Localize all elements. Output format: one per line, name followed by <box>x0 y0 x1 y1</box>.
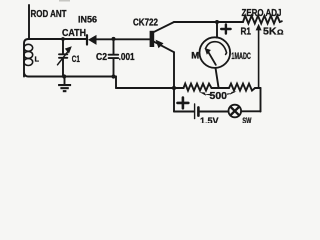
label 500 right arrow <box>230 91 237 94</box>
junction node: C2 top <box>112 37 116 41</box>
label 500 left arrow <box>200 92 207 96</box>
ground stub <box>64 77 66 85</box>
junction node: C1 top <box>61 37 65 41</box>
capacitor C1 arrow head <box>65 46 72 53</box>
potentiometer 500 right zigzag <box>229 84 255 91</box>
battery B1 long plate <box>194 104 196 119</box>
svg-text:CK722: CK722 <box>133 17 158 28</box>
meter M scale arc <box>206 42 227 55</box>
wire: bottom rail left section <box>29 76 117 78</box>
inductor L loop 1 <box>24 44 33 51</box>
svg-text:C2: C2 <box>96 52 107 63</box>
wire: emitter down to battery <box>173 52 175 111</box>
svg-text:.001: .001 <box>119 52 135 63</box>
svg-text:SW: SW <box>242 116 251 123</box>
meter M needle <box>208 52 216 65</box>
svg-text:5K: 5K <box>263 26 277 37</box>
battery B1 short plate <box>197 107 200 115</box>
switch SW body <box>229 105 242 118</box>
plus sign at meter <box>221 24 230 33</box>
ground symbol bars <box>58 84 71 86</box>
transistor Q1 base bar <box>150 31 155 47</box>
svg-text:Ω: Ω <box>277 28 284 37</box>
scan artifact top edge <box>59 0 70 2</box>
capacitor C2 bottom lead <box>113 59 115 77</box>
rod antenna lead <box>28 5 30 39</box>
svg-text:R1: R1 <box>241 26 252 37</box>
svg-text:CATH: CATH <box>62 28 86 39</box>
junction node: C2 bottom <box>111 74 115 78</box>
wire: right riser corner to pot <box>260 88 262 112</box>
transistor Q1 collector lead <box>154 22 174 32</box>
svg-text:IN56: IN56 <box>78 14 97 24</box>
switch SW cross stroke 2 <box>231 107 240 115</box>
transistor Q1 emitter arrow head <box>156 40 164 49</box>
meter M bottom lead / 500 wiper tap <box>216 68 219 88</box>
capacitor C1 top lead <box>62 39 64 54</box>
switch SW cross stroke 1 <box>231 107 240 115</box>
wire: 500 pot right end <box>255 87 261 89</box>
inductor L loop 3 <box>24 59 33 66</box>
wire: switch to right corner <box>241 110 260 112</box>
meter M needle arrow head <box>205 48 211 55</box>
svg-text:1MADC: 1MADC <box>231 51 251 62</box>
wire: battery negative lead <box>174 111 194 113</box>
diode D1 triangle <box>88 35 97 45</box>
capacitor C1 plates <box>59 53 67 55</box>
capacitor C2 top lead <box>113 39 115 54</box>
wire: lower rail to 500 pot <box>116 87 184 89</box>
inductor L loop 2 <box>24 51 33 58</box>
svg-text:ROD ANT: ROD ANT <box>31 9 67 20</box>
resistor R1 zigzag <box>243 16 282 24</box>
plus sign at battery <box>178 98 189 109</box>
potentiometer 500 left zigzag <box>174 84 229 91</box>
junction node: meter top rail <box>215 20 219 24</box>
capacitor C1 bottom lead <box>62 58 64 76</box>
svg-text:L: L <box>35 54 40 63</box>
diode D1 1N56 cathode bar <box>86 35 88 44</box>
svg-text:500: 500 <box>210 91 228 102</box>
svg-text:ZERO ADJ: ZERO ADJ <box>242 8 282 19</box>
wire: collector rail to R1 <box>174 21 243 23</box>
junction node: C1/ground bottom <box>62 74 66 78</box>
svg-text:C1: C1 <box>72 54 80 64</box>
coil L left spine with corners <box>24 39 29 77</box>
capacitor C2 plates <box>109 54 119 56</box>
transistor Q1 emitter lead <box>154 42 174 52</box>
wire: diode to transistor base <box>96 38 150 40</box>
svg-text:1.5V: 1.5V <box>200 116 219 123</box>
wire: top rail tank to diode <box>29 38 88 40</box>
meter M top stub <box>216 22 218 38</box>
junction node: emitter / 500 pot <box>172 86 176 90</box>
wire: step down at C2 <box>115 77 117 89</box>
capacitor C1 variable arrow shaft <box>58 49 71 65</box>
svg-text:M: M <box>191 51 199 62</box>
potentiometer R1 wiper shaft <box>258 30 260 89</box>
meter M body <box>200 37 231 68</box>
wire: battery to switch <box>200 111 229 113</box>
potentiometer R1 wiper arrow head <box>256 24 262 31</box>
